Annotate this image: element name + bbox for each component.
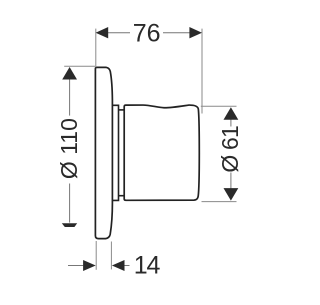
dimension 14 : dimension line [68, 265, 83, 267]
dimension 76 : extension line left [95, 29, 97, 68]
dimension D61 : bottom arrow [224, 188, 239, 201]
dimension 76 : extension line right [201, 29, 203, 114]
svg-text:14: 14 [134, 252, 161, 280]
dimension D110 : top arrow [62, 67, 77, 80]
dimension D110 : extension line top [64, 65, 95, 67]
dimension 76 : left arrow [96, 27, 109, 38]
collar top step [119, 109, 125, 111]
dimension D61 : dimension line [230, 110, 232, 127]
dimension 76 : dimension line [108, 32, 130, 34]
dimension D61 : top arrow [224, 107, 239, 120]
collar bottom step [119, 195, 125, 197]
handle knob body [124, 105, 199, 200]
sleeve outer edge [112, 105, 118, 200]
svg-text:76: 76 [133, 20, 161, 48]
dimension 14 : extension line right [110, 242, 112, 270]
dimension 14 : right arrow [112, 260, 125, 271]
dimension 76 : right arrow [189, 27, 202, 38]
svg-text:Ø 61: Ø 61 [217, 126, 243, 173]
dimension D61 : extension line top [201, 105, 237, 107]
dimension D110 : bottom flat arrow [62, 223, 77, 227]
dimension D110 : dimension line [69, 70, 71, 116]
svg-text:Ø 110: Ø 110 [56, 118, 82, 179]
dimension D61 : extension line bottom [202, 201, 237, 203]
dimension 14 : left arrow [83, 260, 96, 271]
dimension 14 : extension line left [95, 241, 97, 270]
escutcheon plate outline (side view) [95, 67, 112, 238]
